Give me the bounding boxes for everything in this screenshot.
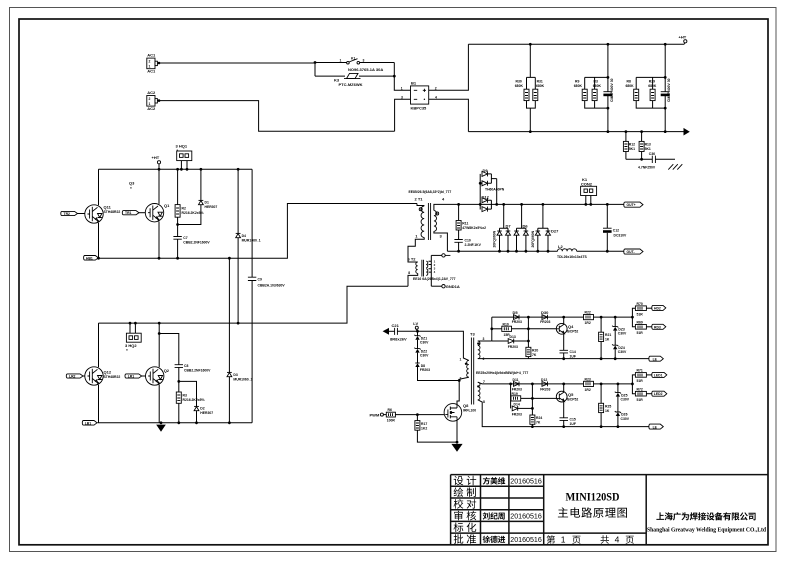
svg-text:D1: D1 [205,200,209,204]
svg-text:R25: R25 [605,404,611,408]
wire output plus rail [444,203,624,205]
svg-text:51R: 51R [637,331,644,335]
svg-text:+HT: +HT [679,35,687,40]
snubber R11 [456,203,486,239]
node LV [413,321,418,331]
svg-text:FR203: FR203 [540,320,550,324]
resistor R20 [526,317,538,359]
svg-text:C36: C36 [649,152,655,156]
svg-text:HB1: HB1 [86,256,93,260]
svg-text:PWM: PWM [370,413,380,418]
svg-text:7K: 7K [532,353,537,357]
svg-text:8: 8 [483,400,485,404]
svg-text:D5: D5 [513,310,519,315]
wire ground rail lower [98,422,253,424]
svg-text:STH48R22: STH48R22 [104,375,121,379]
svg-text:EE85/26.5(6A8,33*2)Id_777: EE85/26.5(6A8,33*2)Id_777 [409,190,452,194]
transistor Q5 [556,384,578,418]
resistor R23 [584,377,620,392]
mosfet Q8 [444,381,476,422]
SECTION-AC [147,44,469,131]
IGBT Q2 [146,322,170,423]
diode D8 [415,363,459,381]
svg-text:CMKP 400V 30: CMKP 400V 30 [667,78,671,102]
svg-text:LED2: LED2 [654,392,663,396]
svg-text:AC2: AC2 [147,106,156,111]
svg-text:CMKP 400V 30: CMKP 400V 30 [610,78,614,102]
diode D3 [227,258,253,424]
diode D4 [236,168,261,325]
terminal OP1 [431,254,450,257]
svg-text:4.7NF250V: 4.7NF250V [638,165,656,169]
zener DZ1 [414,331,429,348]
svg-text:R11: R11 [462,221,468,225]
svg-text:R21: R21 [605,333,611,337]
SECTION-FILTER [468,35,689,170]
svg-text:4: 4 [615,535,620,545]
svg-text:LB1: LB1 [85,421,92,425]
zener DZ2 [414,348,429,363]
capacitor C14 [560,350,576,360]
IGBT Q1 [145,169,170,258]
diode D11 [509,378,522,392]
svg-text:20160516: 20160516 [510,535,542,544]
svg-text:AC2: AC2 [147,90,156,95]
svg-text:C10: C10 [465,239,471,243]
transistor Q4 [556,317,578,350]
svg-text:Q1: Q1 [164,203,170,208]
wire sec1 top rail [492,316,633,318]
diode D1 [176,168,217,226]
svg-text:D13: D13 [510,335,516,339]
capacitor C7 [173,225,210,260]
gate tag TR2 [61,211,85,216]
svg-text:C12: C12 [613,229,619,233]
svg-text:LED1: LED1 [654,373,663,377]
transformer T1 [408,190,451,257]
svg-text:20FQ060N: 20FQ060N [492,230,496,247]
wire HT rail upper [99,168,253,170]
svg-text:1K: 1K [605,409,610,413]
svg-text:RD3: RD3 [654,325,661,329]
tag LED2 [652,391,667,396]
svg-text:NO96.3765-1A 30A: NO96.3765-1A 30A [348,67,383,72]
title block dates [510,477,542,544]
svg-text:TH60A60PN: TH60A60PN [485,188,505,192]
SECTION-BRIDGE2 [66,258,408,432]
wire bridge pin2 to top rail [429,44,469,90]
svg-text:20FQ060N: 20FQ060N [531,230,535,247]
wire rail B lower [99,286,409,323]
capacitor C1 [603,44,613,131]
svg-text:1UF: 1UF [570,354,576,358]
svg-text:Q8: Q8 [463,403,469,408]
svg-text:R24: R24 [536,416,542,420]
SECTION-T1OUT [408,168,644,289]
capacitor C15 [560,417,576,428]
svg-text:C30V: C30V [621,417,630,421]
node relay left junction [314,61,317,64]
svg-text:C15: C15 [570,417,576,421]
svg-text:7K: 7K [536,421,541,425]
resistor R21 [599,317,612,360]
title block names [483,477,506,543]
svg-text:C7: C7 [183,236,187,240]
connector AC1 [147,53,161,74]
svg-text:AC1: AC1 [147,69,156,74]
svg-text:BCP52: BCP52 [567,330,578,334]
svg-text:3: 3 [363,58,365,62]
node rail junctions [529,43,532,46]
svg-text:Q2: Q2 [164,368,170,373]
thermistor K3 [315,73,394,86]
diode D13 [492,335,530,349]
svg-text:51R: 51R [637,398,644,402]
svg-text:FR203: FR203 [420,368,430,372]
resistor R19 [511,384,557,409]
zener DZ4 [612,344,627,360]
svg-text:TR1: TR1 [125,211,132,215]
svg-text:DC310V: DC310V [614,234,628,238]
IGBT Q11 [85,169,121,258]
svg-text:D30: D30 [541,310,549,315]
arrow bottom rail end [684,128,690,136]
diode pair D27 [535,203,559,253]
svg-text:5K1: 5K1 [629,147,635,151]
wire LV rail [397,331,468,360]
svg-text:D12: D12 [482,194,490,199]
svg-text:KBPC35: KBPC35 [411,105,428,110]
svg-text:LV: LV [413,321,418,326]
tag OUT+ [624,202,643,207]
TITLEBLOCK [451,475,768,545]
input PWM [370,413,387,418]
company name [656,512,755,520]
svg-text:HD2: HD2 [654,306,661,310]
svg-text:LE: LE [653,426,658,430]
svg-text:1: 1 [460,357,462,361]
inductor L2 [557,244,588,259]
svg-text:680K: 680K [648,84,657,88]
wire sec2 bottom rail [478,400,649,427]
resistor R17 [415,415,457,443]
node +HT top [679,35,687,45]
resistor R69 [632,317,651,335]
resistor R8 [626,77,666,100]
svg-text:100R: 100R [387,419,396,423]
svg-text:1: 1 [561,535,566,545]
tag RD3 [652,324,666,329]
diode D30 [527,310,565,324]
driver block HQ2 [125,322,141,352]
svg-text:IRFL100: IRFL100 [463,409,476,413]
svg-text:D7: D7 [506,224,512,229]
tag LED1 [652,372,667,377]
svg-text:B1: B1 [411,80,417,85]
resistor R72 [632,384,651,402]
svg-text:C30V: C30V [420,354,429,358]
svg-text:EE16 6A(26Bx4)1,2AV_777: EE16 6A(26Bx4)1,2AV_777 [413,277,456,281]
diode D12b [531,378,565,392]
SECTION-BRIDGE1 [61,143,417,423]
resistor R70 [631,302,652,319]
svg-text:GND1A: GND1A [446,284,460,289]
svg-text:1R2: 1R2 [585,321,591,325]
ground Q8 source [451,420,462,452]
diode D2 [179,381,213,424]
gate tag LR2 [66,374,85,379]
terminal GND1A [431,284,460,289]
svg-text:R10: R10 [503,322,509,326]
transformer T3 [458,331,529,404]
tag LE lower [649,424,663,430]
svg-text:8R8x26V: 8R8x26V [390,337,407,342]
SECTION-T3 [370,302,667,452]
snubber C10 [454,239,481,253]
svg-text:C30V: C30V [420,341,429,345]
node relay right junction [393,75,396,78]
svg-text:D14: D14 [514,403,520,407]
svg-text:+HT: +HT [152,155,160,160]
svg-text:1R2: 1R2 [585,388,591,392]
resistor R24 [530,384,542,428]
rectifier D9 [479,168,505,210]
svg-text:C30V: C30V [618,332,627,336]
svg-text:C8: C8 [184,364,188,368]
transformer T2 [408,255,456,286]
diode D5 [512,310,522,324]
svg-text:FR203: FR203 [508,345,518,349]
svg-text:CON2: CON2 [581,181,593,186]
svg-text:PTC-MZ6WK: PTC-MZ6WK [339,82,363,87]
resistor R3b [176,381,204,424]
svg-text:20160516: 20160516 [510,512,542,521]
gate tag TR1 [122,211,145,216]
svg-text:TR2: TR2 [64,212,71,216]
svg-text:R71: R71 [637,369,643,373]
svg-text:Q11: Q11 [104,204,112,209]
resistor R30 [515,44,536,100]
zener DZ3 [612,317,627,345]
svg-text:R2: R2 [182,206,186,210]
svg-text:R17: R17 [421,422,427,426]
svg-text:CBB2.2NF1600V: CBB2.2NF1600V [183,240,210,244]
svg-text:2.2NF.1KV: 2.2NF.1KV [465,243,482,247]
svg-text:D2: D2 [200,406,204,410]
svg-text:D3: D3 [233,373,237,377]
svg-text:L2_ _ _: L2_ _ _ [558,244,572,249]
svg-text:1K2: 1K2 [421,427,427,431]
svg-text:OUT-: OUT- [627,250,635,254]
diode pair D7 [492,203,511,253]
svg-text:R23: R23 [585,377,591,381]
svg-text:CBB2A.103/630V: CBB2A.103/630V [258,284,286,288]
svg-text:R19: R19 [512,392,518,396]
wire relay branch split [314,63,316,77]
svg-text:Q4: Q4 [568,324,574,329]
svg-text:51R: 51R [637,379,644,383]
svg-text:C30V: C30V [618,350,627,354]
title block row labels [454,476,477,544]
svg-text:6 T2: 6 T2 [408,256,417,261]
capacitor C12 [603,203,627,253]
svg-text:680K: 680K [515,84,524,88]
svg-text:FR203: FR203 [512,320,522,324]
resistor R25 [599,384,612,428]
svg-text:680K: 680K [574,84,583,88]
svg-text:2: 2 [149,60,151,64]
tag HD2 [652,305,666,310]
wire snubber to ground [626,158,652,160]
svg-text:TDL26x16x13x4TS: TDL26x16x13x4TS [557,255,588,259]
svg-text:C9: C9 [258,277,262,281]
resistor R22 [584,310,617,325]
resistor R10 [492,322,557,337]
rectifier D12 [479,194,498,211]
capacitor C8 [158,332,211,383]
svg-text:FR203: FR203 [540,388,550,392]
wire bridge pin3 drop [395,99,411,131]
svg-text:FR203: FR203 [512,412,522,416]
svg-text:47W8K2x5%x2: 47W8K2x5%x2 [462,226,486,230]
svg-text:Q5: Q5 [568,392,574,397]
node mid rail junctions [97,257,100,260]
wire output minus rail [447,250,623,252]
resistor R31 [527,80,545,132]
relay coil K1 CON2 [581,177,597,206]
svg-text:C30V: C30V [621,398,630,402]
svg-text:5K1: 5K1 [645,147,651,151]
wire bridge pin4 to bottom rail [429,99,469,131]
zener DZ6 [615,411,630,428]
resistor R29 [636,80,665,109]
svg-text:HER307: HER307 [200,411,213,415]
svg-text:OUT+: OUT+ [627,203,636,207]
wire AC2 to bridge pin3 [157,101,394,132]
svg-text:3: 3 [401,95,403,99]
svg-text:20160516: 20160516 [510,477,542,486]
svg-text:R6: R6 [388,408,392,412]
wire sec2 top rail [478,382,633,384]
svg-text:R3: R3 [183,394,187,398]
svg-text:R22: R22 [585,310,591,314]
capacitor C2 [661,44,672,131]
resistor R2 [175,168,203,225]
resistor R6 [386,408,444,423]
capacitor C36 [638,152,656,170]
node +HT symbol [152,155,161,171]
title block grid [451,475,768,545]
svg-text:8: 8 [408,271,410,275]
svg-text:BCP52: BCP52 [567,397,578,401]
zener DZ5 [615,384,630,412]
svg-text:AC1: AC1 [147,53,156,58]
capacitor C9 [248,169,285,422]
driver block HQ1 [176,143,192,170]
resistor R71 [631,369,652,386]
svg-text:R69: R69 [637,321,643,325]
connector AC2 [147,90,161,111]
svg-text:680K: 680K [536,84,545,88]
svg-text:R72: R72 [637,387,643,391]
svg-text:680K: 680K [593,84,602,88]
resistor R12 [623,132,635,160]
relay contact K1 [315,57,394,73]
diode D14 [512,403,534,417]
svg-text:4: 4 [435,95,437,99]
svg-text:LR2: LR2 [69,374,76,378]
bridge rectifier B1 [401,80,437,110]
wire sec1 pin3 [478,317,492,341]
svg-text:LR1: LR1 [128,374,135,378]
svg-text:D4: D4 [242,234,246,238]
svg-text:D6: D6 [523,224,529,229]
wire sec1 bottom rail [478,358,649,360]
svg-text:1K: 1K [605,338,610,342]
svg-text:R20: R20 [532,348,538,352]
tag LB1 [82,421,97,426]
svg-text:R216.2K2x5%: R216.2K2x5% [182,211,204,215]
svg-text:MUR1060_1: MUR1060_1 [233,377,252,381]
svg-text:R216.2K2x5%: R216.2K2x5% [183,398,205,402]
svg-text:D27: D27 [551,228,559,233]
wire DC top rail [468,43,684,45]
svg-text:STH48R22: STH48R22 [104,210,121,214]
svg-text:2 T1: 2 T1 [415,197,424,202]
sheet number [547,535,634,544]
svg-text:LE: LE [653,358,658,362]
svg-text:1: 1 [401,87,403,91]
wire DC bottom rail [468,131,683,133]
resistor R9 [574,77,608,100]
svg-text:1: 1 [340,58,342,62]
svg-text:2: 2 [149,97,151,101]
svg-text:EE25x20Hx4(b9dxB6W)bl+4_777: EE25x20Hx4(b9dxB6W)bl+4_777 [476,371,528,375]
resistor R3 [585,80,608,109]
svg-text:51R: 51R [637,312,644,316]
svg-text:MINI120SD: MINI120SD [566,492,620,504]
capacitor C21 [383,323,407,342]
svg-text:C21: C21 [392,323,400,328]
IGBT Q12 [85,323,121,423]
svg-text:C14: C14 [570,350,576,354]
wire mid rail A [98,204,417,259]
svg-text:1UF: 1UF [570,422,576,426]
resistor R13 [639,132,651,160]
diode pair D6 [514,203,535,253]
wire AC1 to relay node [157,62,315,64]
svg-text:Q12: Q12 [104,369,112,374]
svg-text:HER307: HER307 [205,205,218,209]
ground symbol [156,421,166,431]
tag HB1 [84,256,99,261]
tag LE upper [649,356,663,362]
gate tag LR1 [125,374,146,379]
svg-text:MUR1060_1: MUR1060_1 [242,238,261,242]
chassis ground [655,159,682,169]
svg-text:CBB2.2NF1600V: CBB2.2NF1600V [184,368,211,372]
svg-text:T3: T3 [470,331,475,336]
wire relay to bridge pin1 [394,63,410,91]
svg-text:Shanghai Greatway Welding Equi: Shanghai Greatway Welding Equipment CO.,… [647,527,766,534]
svg-text:R70: R70 [637,302,643,306]
tag OUT- [624,249,643,254]
svg-text:680K: 680K [626,84,635,88]
